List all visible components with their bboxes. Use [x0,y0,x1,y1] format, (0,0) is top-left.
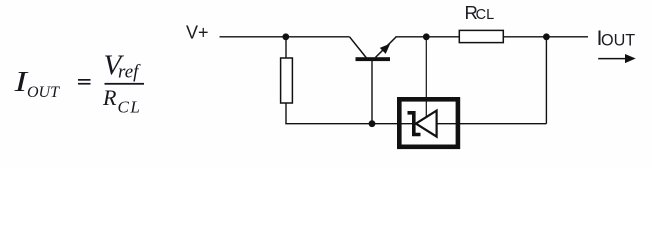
fraction bar [105,83,145,85]
output arrow [598,54,636,63]
svg-text:OUT: OUT [27,84,60,101]
svg-text:CL: CL [476,7,495,23]
resistor (bias) vertical [281,37,293,124]
resistor RCL [459,30,503,42]
wire node A to transistor collector [286,36,350,38]
svg-text:CL: CL [118,98,142,117]
formula I_OUT [13,67,60,101]
shunt reference U1 box [399,99,458,147]
label RCL [465,2,495,23]
wire RCL to node D [503,36,546,38]
svg-text:R: R [102,85,117,110]
node B junction dot (base to bottom wire) [369,120,376,127]
denominator R_CL [102,85,141,117]
node A junction dot [282,33,289,40]
transistor Q1 [350,37,397,124]
wire V+ to node A [220,36,287,38]
wire transistor emitter to RCL [396,36,460,38]
svg-text:V+: V+ [186,23,209,43]
node C junction dot (ref pin tap) [423,33,430,40]
wire box right to vertical [437,123,547,125]
zener cathode bar [408,113,421,135]
equals sign [78,79,91,85]
wire node D down [545,37,547,124]
wire ref pin down into box [425,37,427,118]
svg-text:ref: ref [118,62,141,83]
wire node D to output [546,36,588,38]
svg-text:OUT: OUT [601,32,635,50]
numerator V_ref [104,50,142,83]
zener diode triangle [416,111,437,137]
node D junction dot [543,33,550,40]
label IOUT [597,26,636,50]
wire bottom (resistor to reference box) [285,123,412,125]
